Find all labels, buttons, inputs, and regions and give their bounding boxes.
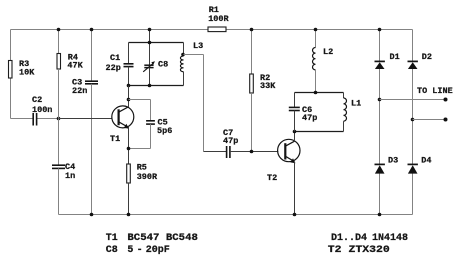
capacitor C1 [106,43,134,86]
wire T2 tank bottom rail [295,131,344,133]
wire T2 collector [294,132,296,142]
wire top supply rail [11,29,413,31]
wire L3 tap to C7 [184,55,204,152]
inductor L2 [313,30,334,93]
wire line terminal 2 [413,119,446,121]
svg-text:1n: 1n [65,171,75,181]
wire line terminal 1 [380,99,446,101]
capacitor C4 [52,119,75,215]
caption parts list right [328,233,408,256]
svg-text:100R: 100R [208,14,229,24]
svg-text:47K: 47K [67,61,83,71]
node R2/C7/base junction [250,150,254,154]
node T2 emitter ground junction [293,213,297,217]
wire T1 base [59,118,113,120]
wire diode column B [412,30,414,215]
node C8 bottom junction [148,84,152,88]
diode D3 [375,156,399,174]
capacitor C5 [129,100,173,149]
node ground rail junction D columns [378,213,382,217]
wire tank top rail [129,42,184,44]
svg-text:390R: 390R [137,172,158,182]
node emitter/C5/R5 junction [127,147,131,151]
svg-text:D2: D2 [422,52,432,62]
inductor L1 [344,93,362,132]
svg-text:D1..D4: D1..D4 [331,233,367,244]
node A junction R4/C2/C4/base [57,117,61,121]
wire ground bottom rail [59,214,413,216]
caption parts list left [106,233,198,256]
wire T2 emitter [294,162,296,215]
svg-text:TO LINE: TO LINE [417,86,453,96]
svg-text:BC547 BC548: BC547 BC548 [127,233,197,244]
node tank top junction [148,41,152,45]
resistor R5 [127,163,158,215]
svg-text:C1: C1 [110,53,120,63]
svg-text:C2: C2 [32,95,42,105]
svg-text:L2: L2 [323,47,333,57]
node diode B line tap [411,118,415,122]
svg-text:47p: 47p [302,113,317,123]
svg-text:D1: D1 [390,52,400,62]
wire tank bottom rail [129,85,184,87]
node L3 tap junction [181,53,185,57]
node C5 top tap [127,98,131,102]
node T2 collector tank junction [293,130,297,134]
node C3 ground junction [90,213,94,217]
capacitor C6 [289,93,318,132]
inductor L3 [180,41,203,86]
capacitor C2 [11,95,59,126]
transistor T1 [110,106,134,144]
svg-text:L1: L1 [351,99,361,109]
svg-text:100n: 100n [32,105,52,115]
svg-text:33K: 33K [260,81,276,91]
trimmer capacitor C8 [143,43,168,86]
svg-text:C8: C8 [158,60,168,70]
transistor T2 [267,139,300,183]
wire left vertical branch [10,30,12,119]
node top rail junctions [57,28,382,32]
svg-text:20pF: 20pF [146,245,170,256]
node diode A line tap [378,98,382,102]
node R5 ground junction [127,213,131,217]
diode D4 [408,156,432,174]
svg-text:R5: R5 [137,163,147,173]
node C1 bottom junction [127,84,131,88]
diode D1 [375,52,400,69]
svg-text:D3: D3 [388,156,398,166]
resistor R3 [9,59,36,78]
svg-text:47p: 47p [223,136,238,146]
resistor R4 [57,30,84,119]
diode D2 [408,52,433,69]
wire T2 tank top rail [295,92,344,94]
wire link top rail to tank [149,30,151,43]
resistor R2 [250,30,277,152]
node terminal 1 end [444,98,448,102]
svg-text:T1: T1 [106,233,118,244]
svg-text:D4: D4 [421,156,431,166]
svg-text:C8: C8 [106,245,118,256]
svg-text:T2 ZTX320: T2 ZTX320 [328,245,390,256]
svg-text:T2: T2 [267,173,277,183]
svg-text:T1: T1 [110,134,120,144]
svg-text:22p: 22p [106,63,121,73]
wire T1 emitter [128,127,130,164]
svg-text:-: - [137,245,143,256]
svg-text:L3: L3 [193,41,203,51]
svg-text:10K: 10K [19,68,35,78]
svg-text:22n: 22n [72,86,87,96]
node L2 tank junction [314,91,318,95]
wire diode column A [379,30,381,215]
capacitor C7 [204,128,279,158]
wire T1 collector [128,86,130,108]
svg-text:1N4148: 1N4148 [372,233,408,244]
node terminal 2 end [444,118,448,122]
resistor R1 [208,5,230,32]
capacitor C3 [72,30,98,215]
svg-text:5: 5 [127,245,133,256]
svg-text:5p6: 5p6 [157,126,172,136]
